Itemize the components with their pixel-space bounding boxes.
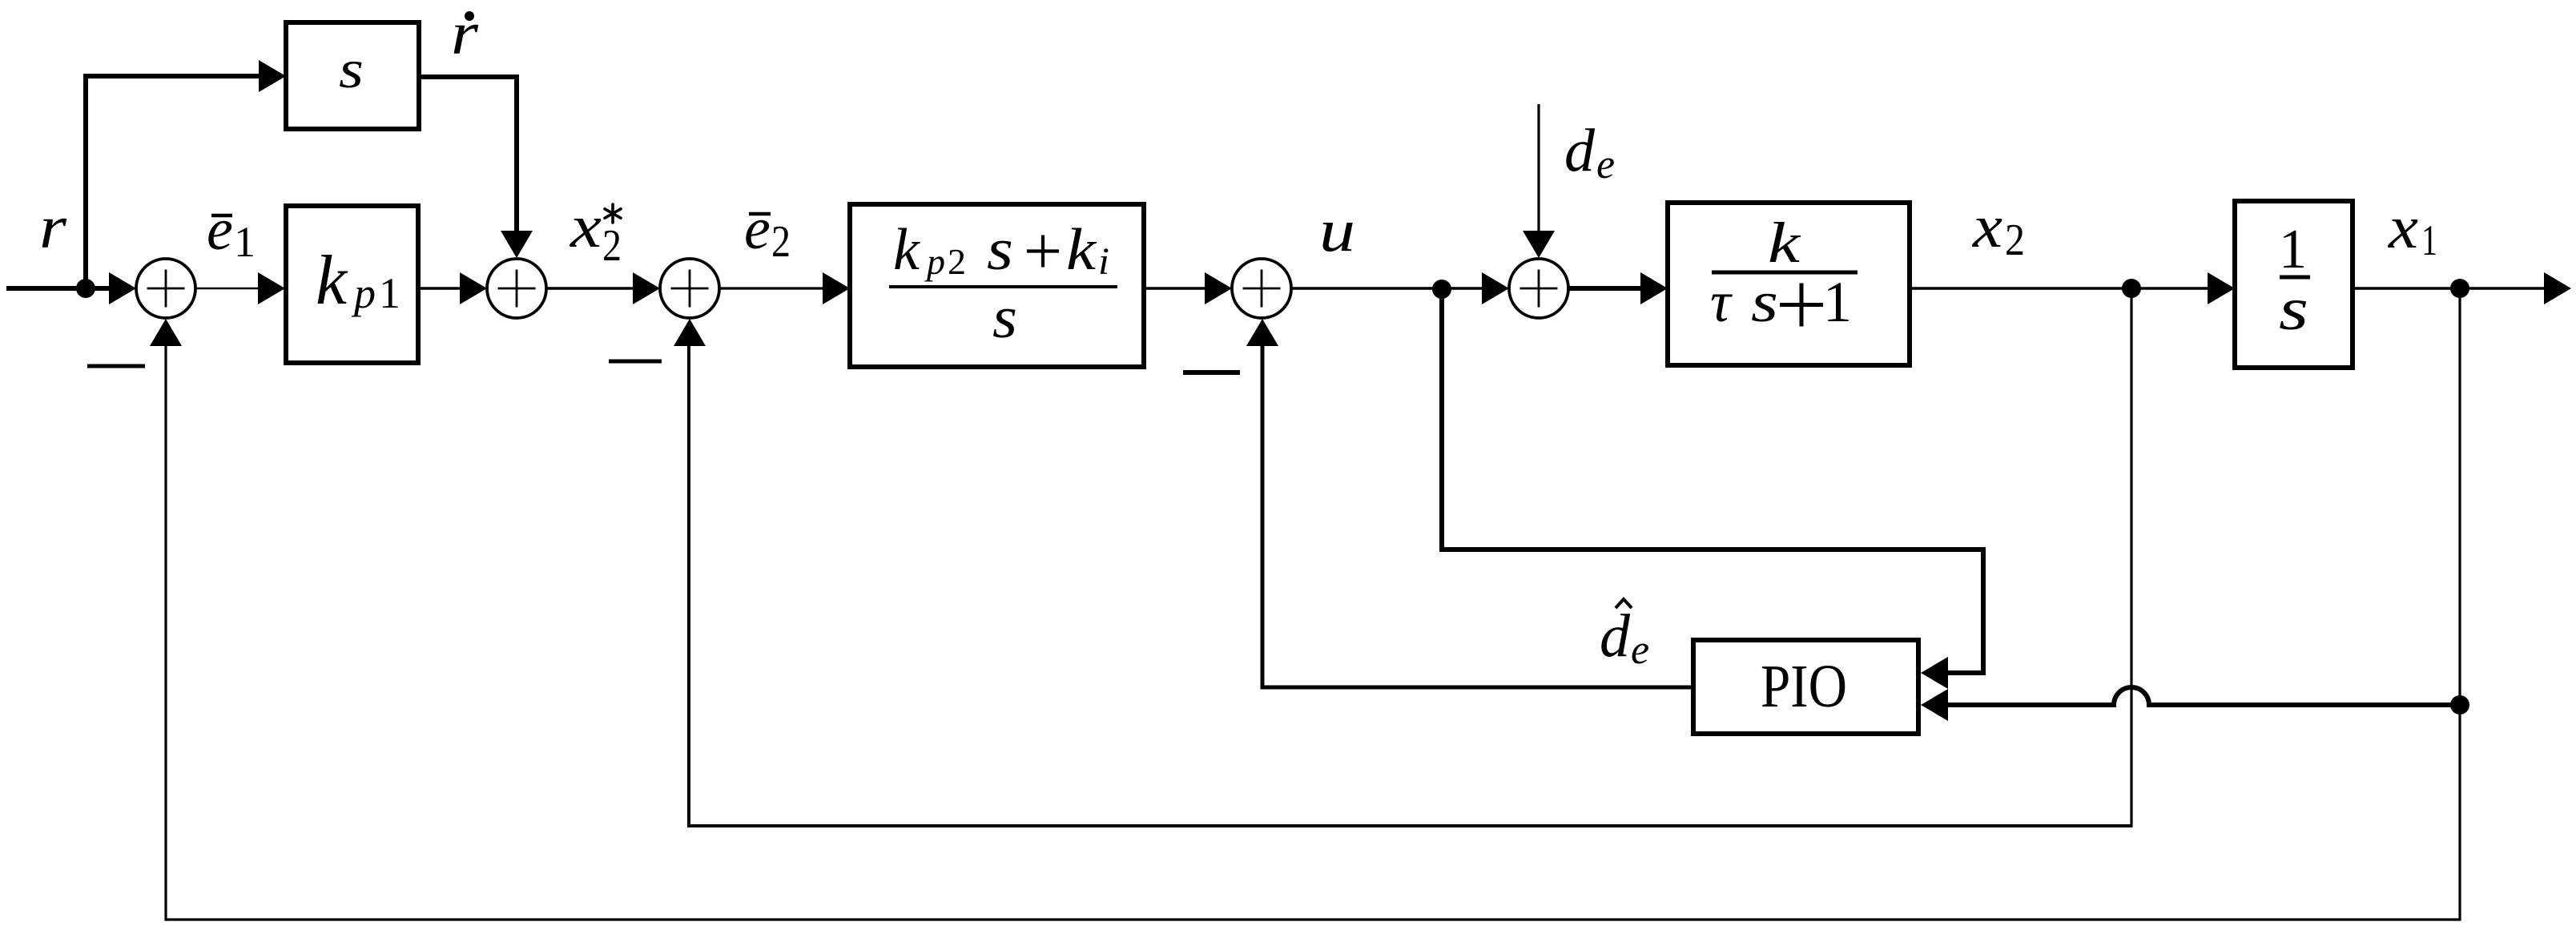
svg-text:s: s: [992, 285, 1017, 351]
svg-text:x: x: [2388, 194, 2418, 261]
svg-text:s: s: [2279, 276, 2308, 343]
svg-text:1: 1: [379, 269, 400, 317]
svg-text:k: k: [1768, 211, 1802, 275]
svg-text:d: d: [1600, 602, 1631, 670]
svg-text:1: 1: [1823, 270, 1852, 334]
svg-text:k: k: [1066, 217, 1097, 283]
svg-text:d: d: [1564, 117, 1596, 184]
svg-text:e: e: [744, 196, 771, 262]
svg-text:2: 2: [948, 241, 966, 282]
svg-text:e: e: [1631, 627, 1649, 673]
svg-text:u: u: [1319, 197, 1355, 264]
svg-text:x: x: [570, 193, 602, 260]
svg-text:r: r: [451, 0, 478, 67]
svg-text:PIO: PIO: [1761, 653, 1847, 720]
svg-text:r: r: [39, 194, 66, 261]
svg-text:p: p: [924, 241, 945, 282]
svg-text:2: 2: [2005, 215, 2025, 265]
svg-text:s: s: [1751, 270, 1778, 334]
svg-text:e: e: [1596, 142, 1615, 187]
svg-text:2: 2: [602, 221, 622, 271]
svg-text:1: 1: [234, 218, 256, 266]
svg-text:p: p: [351, 269, 376, 317]
svg-text:x: x: [1972, 193, 2002, 260]
svg-text:k: k: [893, 217, 920, 283]
svg-text:k: k: [316, 242, 348, 320]
svg-text:2: 2: [771, 217, 791, 267]
svg-text:e: e: [207, 197, 233, 263]
svg-text:1: 1: [2421, 216, 2437, 264]
svg-text:s: s: [987, 217, 1013, 283]
svg-text:s: s: [339, 38, 364, 99]
svg-text:1: 1: [2279, 219, 2307, 280]
svg-text:i: i: [1098, 240, 1109, 283]
svg-text:τ: τ: [1710, 270, 1733, 334]
